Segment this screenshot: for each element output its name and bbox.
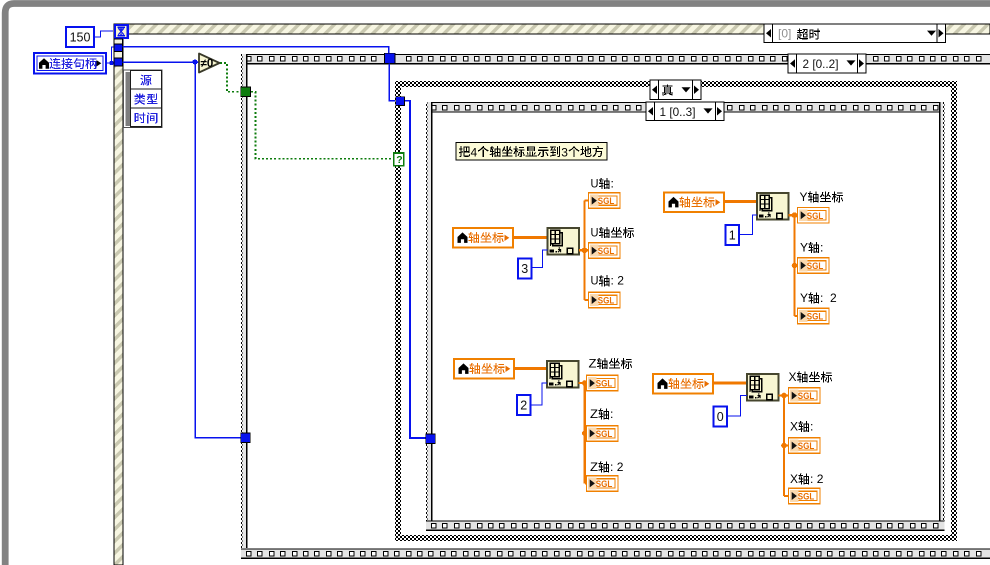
control 轴坐标 (Y) (664, 193, 724, 213)
case structure top border (395, 81, 957, 87)
svg-text:2 [0..2]: 2 [0..2] (803, 57, 839, 71)
SGL indicator U轴坐标 (U) (589, 243, 621, 258)
wire: 连接句柄 to event tunnels (106, 47, 114, 64)
svg-text:: 2: : 2 (820, 291, 837, 305)
numeric constant 0 (X) (714, 407, 728, 427)
index array node (U) (548, 228, 580, 255)
event border tunnel (bottom) (114, 52, 123, 66)
indicator label X轴: 2 (X) (790, 472, 824, 486)
case selector terminal ? (394, 153, 404, 166)
indicator label Z轴: (Z) (590, 407, 613, 421)
svg-text:X: X (790, 419, 798, 433)
SGL indicator Y轴: (Y) (798, 258, 830, 274)
case tunnel (top left, handle) (396, 97, 405, 106)
svg-text:?: ? (396, 154, 402, 166)
svg-text:SGL: SGL (798, 492, 815, 502)
SGL indicator Z轴: 2 (Z) (587, 476, 619, 492)
sequence selector label 1 [0..3] (646, 102, 724, 121)
indicator label Y轴: (Y) (800, 240, 823, 254)
index array node (Y) (757, 193, 789, 220)
indicator label U轴: (U) (591, 176, 614, 190)
case structure left border (395, 81, 401, 541)
SGL indicator U轴: (U) (589, 193, 621, 209)
wire: constant 1 to index input (Y) (739, 215, 757, 235)
indicator label X轴坐标 (X) (789, 370, 833, 384)
svg-text:U: U (591, 225, 599, 239)
wire: index array output branches (X) (779, 393, 789, 496)
svg-text:SGL: SGL (807, 261, 824, 271)
wire: constant 3 to index input (U) (532, 250, 548, 268)
svg-text:3: 3 (521, 262, 528, 276)
not-equal-to-zero node (199, 54, 220, 73)
svg-text:Z: Z (589, 356, 597, 370)
stacked sequence 1 [0..3] left border (426, 102, 432, 520)
indicator label Y轴: 2 (Y) (800, 291, 837, 305)
case selector label 真 (650, 80, 701, 100)
svg-text:SGL: SGL (598, 196, 615, 206)
svg-text:U: U (591, 176, 599, 190)
event structure top border (114, 24, 990, 34)
wire: tunnel to sequence (top run) (123, 47, 389, 55)
sequence 1 tunnel (left, handle) (426, 434, 435, 443)
wire: 轴坐标 to index array (X) (713, 382, 747, 385)
svg-text::: : (611, 176, 614, 190)
svg-text:: 2: : 2 (611, 274, 625, 288)
wire: index array output branches (Z) (579, 380, 588, 483)
wire: 轴坐标 to index array (U) (513, 236, 548, 239)
svg-text:≠0: ≠0 (201, 58, 214, 70)
index array node (Z) (547, 361, 579, 388)
indicator label Y轴坐标 (Y) (800, 190, 844, 204)
wire: 轴坐标 to index array (Z) (514, 367, 547, 370)
SGL indicator X轴: (X) (789, 438, 821, 454)
SGL indicator Y轴: 2 (Y) (798, 308, 830, 324)
svg-text:Y: Y (800, 190, 808, 204)
svg-text:1 [0..3]: 1 [0..3] (660, 105, 696, 119)
svg-text:SGL: SGL (598, 296, 615, 306)
wire: handle down into case structure (389, 64, 426, 439)
svg-text:3: 3 (561, 145, 568, 159)
control 轴坐标 (X) (653, 374, 713, 394)
svg-text:: 2: : 2 (810, 472, 824, 486)
free label 把4个轴坐标显示到3个地方 (456, 143, 607, 161)
event data node 源/类型/时间 (124, 70, 163, 128)
control 轴坐标 (U) (453, 228, 513, 248)
wire: index array output branches (Y) (789, 212, 798, 316)
svg-text:SGL: SGL (596, 379, 613, 389)
SGL indicator U轴: 2 (U) (589, 292, 621, 308)
svg-text:Z: Z (590, 460, 598, 474)
svg-text:: 2: : 2 (610, 460, 624, 474)
svg-text:0: 0 (717, 410, 724, 424)
wire: tunnel to not-equal-zero and down to sequence (109, 59, 241, 437)
event timeout terminal (hourglass) (115, 25, 128, 38)
numeric constant 150 (66, 27, 94, 47)
SGL indicator X轴: 2 (X) (789, 488, 821, 504)
SGL indicator Z轴坐标 (Z) (587, 375, 619, 391)
sequence tunnel (left, handle) (241, 433, 250, 442)
svg-text:U: U (591, 274, 599, 288)
stacked sequence 2 [0..2] left border (241, 54, 247, 548)
event structure selector label [0] 超时 (764, 24, 946, 43)
wire: boolean to case selector (dotted green) (220, 63, 394, 159)
svg-text:SGL: SGL (807, 211, 824, 221)
wire: constant 2 to index input (Z) (531, 383, 548, 405)
indicator label X轴: (X) (790, 419, 813, 433)
wire: 150 to timeout terminal (94, 31, 113, 37)
stacked sequence 1 [0..3] bottom border (426, 520, 945, 531)
svg-text:Y: Y (800, 291, 808, 305)
index array node (X) (747, 374, 779, 401)
svg-text:SGL: SGL (798, 441, 815, 451)
svg-text::: : (610, 407, 613, 421)
stacked sequence 2 [0..2] bottom border (241, 548, 990, 559)
svg-text::: : (820, 240, 823, 254)
numeric constant 2 (Z) (517, 395, 531, 415)
svg-text:X: X (790, 472, 798, 486)
svg-text:Y: Y (800, 240, 808, 254)
stacked sequence 1 [0..3] top border (426, 102, 945, 113)
svg-text:X: X (789, 370, 797, 384)
case structure bottom border (395, 535, 957, 541)
sequence tunnel (left, boolean) (241, 87, 251, 97)
control 连接句柄 (34, 53, 106, 74)
stacked sequence 2 [0..2] top border (241, 54, 990, 65)
SGL indicator Z轴: (Z) (587, 426, 619, 442)
numeric constant 3 (U) (518, 259, 532, 279)
svg-text:[0]: [0] (778, 27, 791, 41)
event structure left border (114, 24, 123, 565)
indicator label U轴: 2 (U) (591, 274, 625, 288)
svg-text:1: 1 (729, 229, 736, 243)
SGL indicator Y轴坐标 (Y) (798, 208, 830, 224)
numeric constant 1 (Y) (726, 225, 740, 245)
control 轴坐标 (Z) (454, 359, 514, 379)
wire: constant 0 to index input (X) (727, 396, 747, 417)
svg-text:SGL: SGL (598, 246, 615, 256)
sequence tunnel (top, handle) (385, 53, 395, 63)
svg-text:SGL: SGL (596, 429, 613, 439)
indicator label Z轴: 2 (Z) (590, 460, 624, 474)
svg-text:SGL: SGL (798, 391, 815, 401)
wire: 轴坐标 to index array (Y) (724, 200, 757, 203)
sequence selector label 2 [0..2] (788, 54, 866, 73)
case structure right border (951, 81, 957, 541)
svg-text:2: 2 (520, 399, 527, 413)
SGL indicator X轴坐标 (X) (789, 388, 821, 404)
indicator label Z轴坐标 (Z) (589, 356, 633, 370)
event border tunnel (top) (114, 39, 123, 52)
svg-text:Z: Z (590, 407, 598, 421)
svg-text:4: 4 (471, 145, 478, 159)
wire: index array output branches (U) (579, 201, 589, 300)
stacked sequence 1 [0..3] right border (940, 102, 945, 520)
indicator label U轴坐标 (U) (591, 225, 635, 239)
svg-text:SGL: SGL (807, 312, 824, 322)
svg-text:SGL: SGL (596, 479, 613, 489)
svg-text:150: 150 (70, 31, 91, 45)
svg-text::: : (810, 419, 813, 433)
